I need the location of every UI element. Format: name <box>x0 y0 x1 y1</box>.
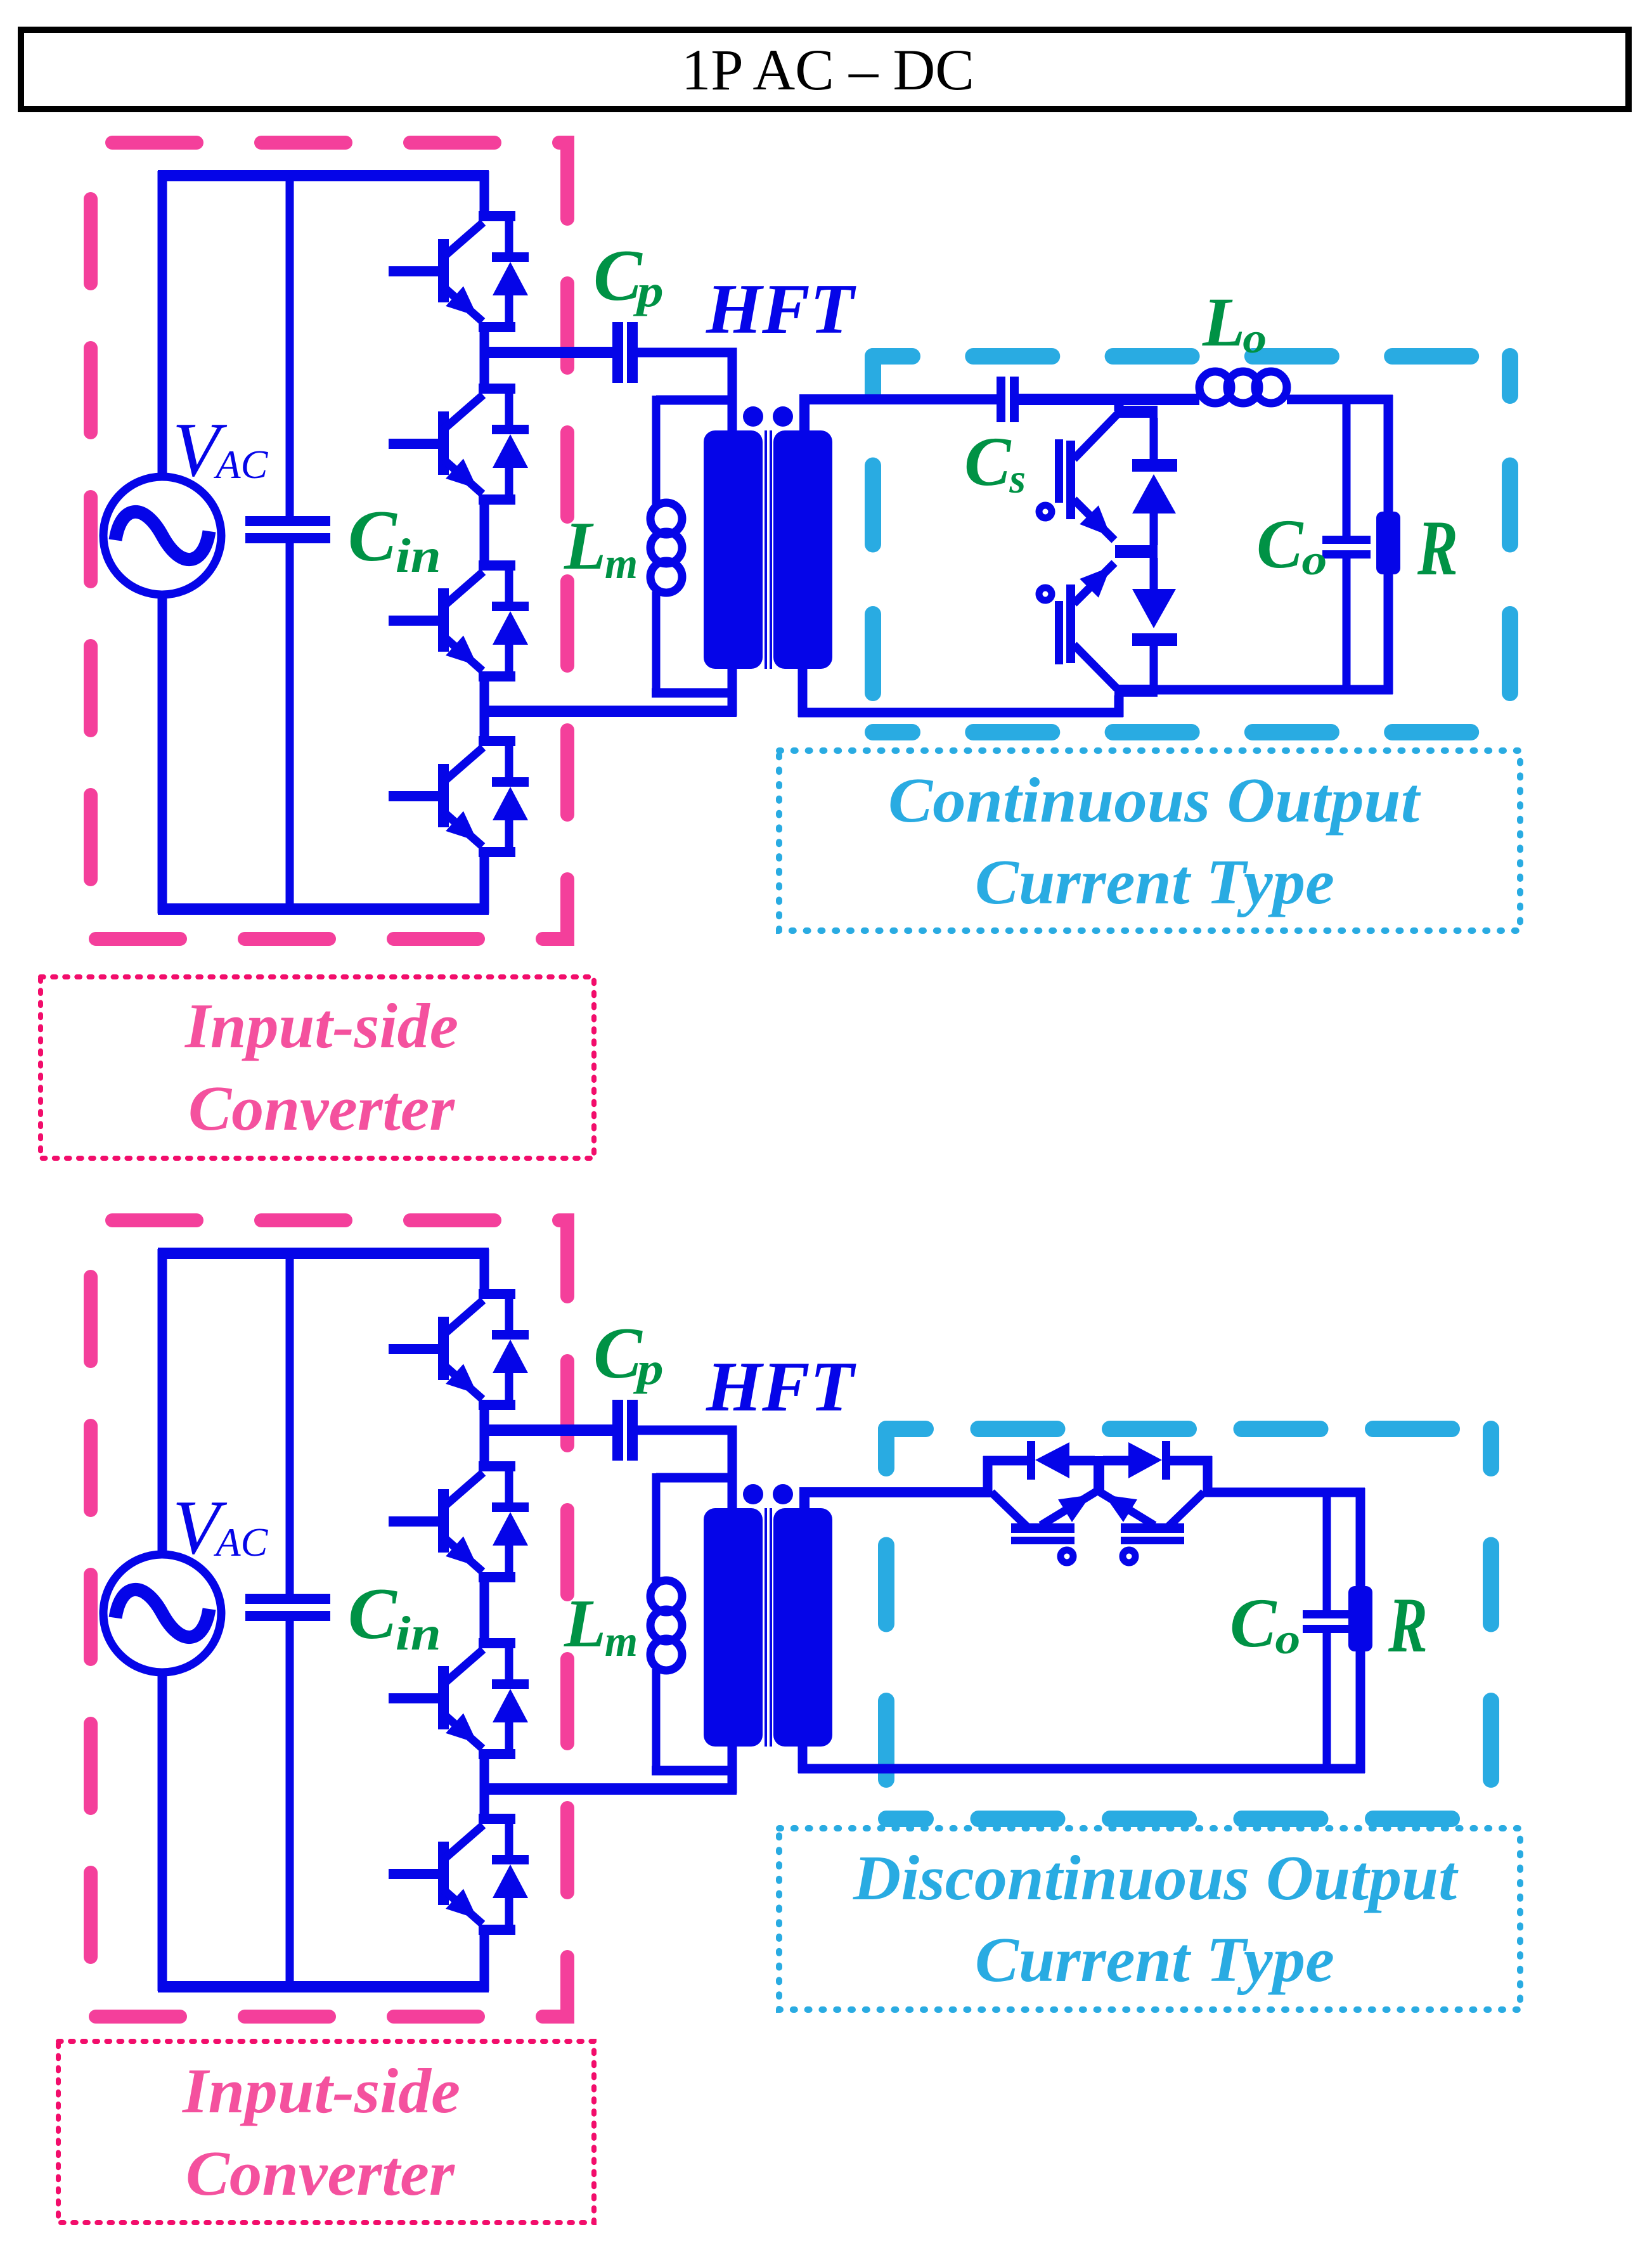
node: centre riser bar <box>1094 1456 1104 1495</box>
wire: tap to Cp (bottom) <box>480 1424 614 1436</box>
inductor Lo coil <box>1199 371 1231 403</box>
wire: Lm upper (bottom) <box>652 1473 661 1583</box>
wire: tap to primary bottom <box>480 706 737 717</box>
discontinuous output dashed boundary <box>886 1429 1491 1819</box>
wire: VAC to bottom rail (bottom) <box>158 1674 167 1991</box>
wire: diode row right segment <box>1169 1456 1212 1466</box>
svg-text:R: R <box>1417 505 1458 591</box>
input-side converter dashed boundary (top circuit) <box>91 143 567 939</box>
wire: Cp to transformer (bottom) <box>638 1430 732 1515</box>
wire: bottom DC rail (bottom) <box>158 1981 489 1992</box>
wire: left riser to diode row <box>983 1456 993 1497</box>
wire: Q3-Q4 (bottom) <box>480 1754 489 1819</box>
wire: R bottom <box>1384 573 1393 694</box>
svg-text:R: R <box>1388 1582 1428 1669</box>
wire: Lo to R corner <box>1287 395 1393 404</box>
wire: Cs to Lo <box>1019 394 1199 405</box>
VAC sine symbol <box>115 512 209 559</box>
svg-text:Converter: Converter <box>188 1073 456 1144</box>
wire: secondary bottom drop (bottom) <box>798 1747 808 1773</box>
wire: primary bottom drop (bottom) <box>728 1747 737 1793</box>
svg-text:Current Type: Current Type <box>975 846 1334 917</box>
wire: Lm bottom jog <box>652 688 737 698</box>
wire: Co bottom (bottom) <box>1323 1632 1331 1773</box>
transformer core line right <box>770 430 772 669</box>
transistor Q2b (IGBT with anti-parallel diode) <box>389 1461 529 1582</box>
diode D8 (points right) <box>1128 1441 1170 1480</box>
svg-text:Input-side: Input-side <box>182 2055 460 2126</box>
wire: Q2-Q3 <box>480 500 489 565</box>
capacitor Cs left plate <box>997 377 1005 422</box>
wire: Co bottom <box>1343 557 1351 694</box>
transistor Q6 (lower output IGBT) <box>1039 563 1158 697</box>
wire: Q2-Q3 (bottom) <box>480 1577 489 1643</box>
wire: diode row left segment <box>983 1456 1028 1466</box>
wire: Cin top <box>286 171 294 517</box>
capacitor Cp right plate <box>627 322 638 383</box>
wire: Co top <box>1343 399 1351 537</box>
svg-text:Current Type: Current Type <box>975 1924 1334 1995</box>
svg-text:1P AC – DC: 1P AC – DC <box>681 37 974 102</box>
transistor Q3 (IGBT with anti-parallel diode) <box>389 560 529 681</box>
transistor Q8 (right output IGBT, gate below) <box>1099 1492 1204 1563</box>
capacitor Cin bottom plate (bottom) <box>245 1611 330 1621</box>
input-side converter label box (top) <box>41 977 594 1158</box>
wire: output bottom (bottom) <box>798 1764 1365 1774</box>
capacitor Cp left plate (bottom) <box>612 1400 623 1461</box>
svg-text:Converter: Converter <box>186 2138 456 2209</box>
capacitor Cin bottom plate <box>245 533 330 543</box>
wire: Q3-Q4 <box>480 676 489 741</box>
wire: diode row mid-right segment <box>1103 1456 1130 1466</box>
capacitor Co top plate (bottom) <box>1303 1610 1351 1618</box>
title box frame <box>21 30 1629 109</box>
wire: secondary top <box>804 399 998 439</box>
wire: chain top <box>480 171 489 216</box>
diode D6 (anti-parallel, points down) <box>1132 558 1177 688</box>
capacitor Cin top plate (bottom) <box>245 1594 330 1604</box>
transformer core line left (bottom) <box>765 1508 767 1747</box>
transformer HFT secondary winding (bottom) <box>773 1508 832 1747</box>
discontinuous output label box <box>779 1828 1520 2010</box>
wire: Co top (bottom) <box>1323 1492 1331 1611</box>
node: shared emitter bar of Q5/Q6 <box>1115 545 1158 558</box>
transistor Q1 (IGBT with anti-parallel diode) <box>389 211 529 332</box>
transformer HFT secondary winding <box>773 430 832 669</box>
capacitor Cs right plate <box>1010 377 1019 422</box>
wire: output bottom <box>1155 685 1393 695</box>
wire: right riser to diode row <box>1203 1456 1213 1497</box>
polarity dot secondary <box>773 406 793 427</box>
capacitor Co bottom plate <box>1322 550 1371 559</box>
wire: chain bottom <box>480 852 489 914</box>
polarity dot primary (bottom) <box>743 1484 763 1504</box>
wire: chain top (bottom) <box>480 1249 489 1294</box>
capacitor Cin top plate <box>245 516 330 526</box>
svg-text:HFT: HFT <box>706 270 857 349</box>
transistor Q5 (upper output IGBT) <box>1039 406 1158 540</box>
transformer HFT primary winding <box>704 430 763 669</box>
capacitor Cp right plate (bottom) <box>627 1400 638 1461</box>
transformer HFT primary winding (bottom) <box>704 1508 763 1747</box>
svg-text:HFT: HFT <box>706 1348 857 1426</box>
wire: switch bottom drop <box>1114 695 1124 717</box>
wire: diode row mid-left segment <box>1068 1456 1095 1466</box>
wire: bottom DC rail <box>158 903 489 915</box>
wire: Cin bottom (bottom) <box>286 1620 294 1991</box>
wire: output top right <box>1203 1488 1365 1497</box>
input-side converter label box (bottom) <box>58 2041 594 2223</box>
transistor Q7 (left output IGBT, gate below) <box>991 1492 1096 1563</box>
transistor Q1b (IGBT with anti-parallel diode) <box>389 1289 529 1410</box>
wire: secondary top (bottom) <box>804 1492 992 1516</box>
continuous output label box <box>779 751 1520 931</box>
svg-text:Input-side: Input-side <box>184 990 458 1061</box>
transformer core line left <box>765 430 767 669</box>
wire: Lm lower (bottom) <box>652 1669 661 1775</box>
wire: tap to primary bottom (bottom) <box>480 1783 737 1795</box>
wire: Lm lower <box>652 591 661 697</box>
transistor Q4 (IGBT with anti-parallel diode) <box>389 736 529 857</box>
wire: chain bottom (bottom) <box>480 1930 489 1991</box>
wire: Lm top tee (bottom) <box>656 1473 737 1483</box>
wire: Q1-Q2 <box>480 327 489 389</box>
wire: Cin top (bottom) <box>286 1249 294 1595</box>
svg-text:Discontinuous Output: Discontinuous Output <box>853 1842 1459 1913</box>
wire: Lm bottom jog (bottom) <box>652 1766 737 1776</box>
capacitor Cp left plate <box>612 322 623 383</box>
transistor Q2 (IGBT with anti-parallel diode) <box>389 384 529 505</box>
capacitor Co top plate <box>1322 536 1371 544</box>
wire: R top (bottom) <box>1356 1488 1365 1588</box>
wire: VAC to top rail (bottom) <box>158 1249 167 1553</box>
wire: VAC to top rail <box>158 171 167 475</box>
wire: output node riser <box>1114 399 1124 411</box>
resistor R body (bottom) <box>1348 1586 1372 1651</box>
resistor R body <box>1376 512 1400 574</box>
wire: top DC rail <box>158 170 489 181</box>
wire: Lm top tee <box>656 396 737 405</box>
diode D7 (points left) <box>1027 1441 1069 1480</box>
wire: top DC rail (bottom) <box>158 1248 489 1259</box>
wire: Q1-Q2 (bottom) <box>480 1405 489 1466</box>
svg-text:Continuous Output: Continuous Output <box>888 765 1421 836</box>
wire: R top <box>1384 395 1393 513</box>
wire: Cin bottom <box>286 542 294 914</box>
transistor Q3b (IGBT with anti-parallel diode) <box>389 1638 529 1759</box>
wire: R bottom (bottom) <box>1356 1650 1365 1773</box>
source VAC (AC source circle) <box>103 477 221 595</box>
wire: tap to Cp <box>480 347 614 358</box>
wire: Lm upper <box>652 396 661 505</box>
source VAC circle (bottom) <box>103 1554 221 1672</box>
polarity dot primary <box>743 406 763 427</box>
polarity dot secondary (bottom) <box>773 1484 793 1504</box>
wire: secondary bottom drop <box>798 669 808 717</box>
continuous output dashed boundary <box>873 356 1510 732</box>
input-side converter dashed boundary (bottom circuit) <box>91 1220 567 2017</box>
wire: Cp to transformer <box>638 352 732 437</box>
inductor Lm coil <box>650 503 682 534</box>
transistor Q4b (IGBT with anti-parallel diode) <box>389 1814 529 1935</box>
transformer core line right (bottom) <box>770 1508 772 1747</box>
capacitor Co bottom plate (bottom) <box>1303 1625 1351 1633</box>
inductor Lm coil (bottom) <box>650 1580 682 1612</box>
wire: VAC to bottom rail <box>158 596 167 914</box>
VAC sine symbol (bottom) <box>115 1589 209 1637</box>
wire: primary bottom drop <box>728 669 737 716</box>
diode D5 (anti-parallel, points up) <box>1132 418 1177 545</box>
wire: secondary return <box>798 708 1123 718</box>
